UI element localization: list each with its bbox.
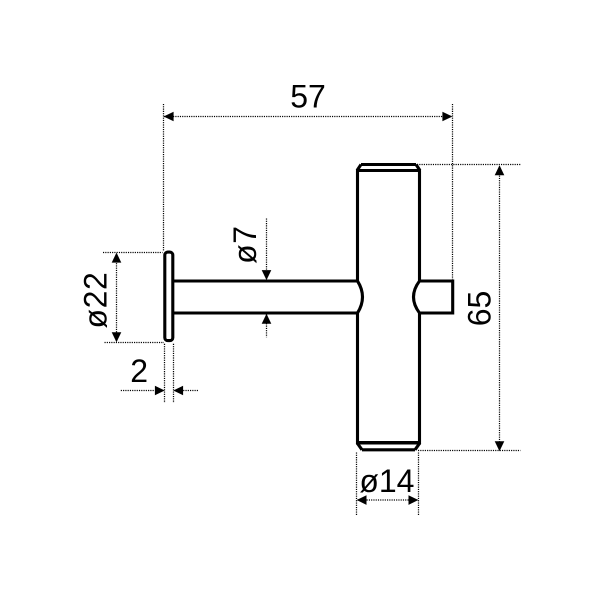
svg-text:57: 57 xyxy=(290,78,326,114)
svg-text:65: 65 xyxy=(462,291,498,327)
svg-text:ø22: ø22 xyxy=(78,272,114,329)
svg-text:ø7: ø7 xyxy=(227,225,263,264)
svg-text:2: 2 xyxy=(130,353,148,389)
svg-text:ø14: ø14 xyxy=(359,463,414,499)
